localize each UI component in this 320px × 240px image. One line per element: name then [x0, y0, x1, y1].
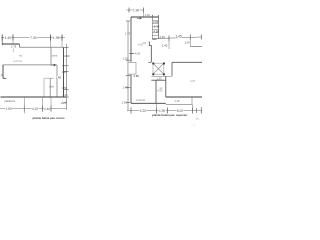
svg-text:1.40: 1.40 — [62, 70, 68, 74]
svg-text:pdf: pdf — [191, 123, 196, 127]
rp bottom dim label 1.90 — [159, 109, 166, 113]
svg-text:4.20: 4.20 — [138, 43, 144, 47]
rp left dim tick y21 — [126, 20, 130, 22]
interior wall x51 — [50, 47, 52, 66]
top dim tick 3 — [50, 35, 52, 41]
svg-text:1.20: 1.20 — [123, 56, 129, 60]
wall top y47 — [20, 46, 64, 48]
extension line x2 — [1, 41, 3, 46]
rp bottom tick x156 — [156, 108, 158, 114]
rp bottom dim label 6.00 — [176, 109, 183, 113]
wall step vertical x19 — [19, 44, 21, 48]
svg-text:1.50: 1.50 — [62, 86, 68, 90]
rp bottom wall right y97 — [166, 96, 202, 98]
bottom dim label 0.60 — [44, 107, 50, 111]
interior wall x57 lower — [56, 79, 58, 97]
svg-text:sala: sala — [49, 85, 54, 89]
stairs left rail — [151, 17, 153, 39]
svg-text:1.40: 1.40 — [175, 99, 181, 103]
bottom dim label 4.10 — [32, 107, 39, 111]
stair tread 3 — [152, 26, 158, 28]
svg-text:4.70: 4.70 — [190, 79, 196, 83]
svg-text:1.20: 1.20 — [157, 76, 163, 80]
interior wall x50 lower — [49, 78, 51, 97]
rp dim label 3.45 — [175, 34, 182, 38]
svg-text:1.40: 1.40 — [56, 75, 62, 79]
right dim tick y97 — [64, 96, 69, 98]
svg-text:1.40: 1.40 — [62, 93, 68, 97]
door leaf x13 — [13, 49, 15, 53]
dim label 1.40 — [5, 36, 12, 40]
interior wall y65 — [3, 64, 57, 66]
svg-text:4.20: 4.20 — [140, 109, 146, 113]
rp left dim tick y87 — [126, 86, 130, 88]
svg-text:planta bx: planta bx — [5, 99, 16, 103]
rp left dim tick y53 — [129, 52, 134, 54]
svg-text:4.95: 4.95 — [154, 30, 160, 34]
svg-text:4.95: 4.95 — [160, 35, 166, 39]
svg-text:2.60: 2.60 — [153, 20, 159, 24]
left wall x3 — [2, 65, 4, 79]
svg-text:4.20: 4.20 — [135, 52, 141, 56]
stairs bottom tick — [152, 38, 156, 40]
left wall upper tick — [1, 74, 4, 76]
right dim tick y47 — [64, 46, 69, 48]
svg-text:esc: esc — [196, 119, 200, 121]
extension line x50 — [50, 41, 52, 48]
rp door box on left wall — [128, 62, 136, 74]
svg-text:--: -- — [56, 83, 58, 86]
rp left dim tick y75 — [126, 74, 130, 76]
top dimension line — [1, 37, 65, 39]
interior wall x57 upper — [56, 65, 58, 76]
bottom dim tick x51 — [50, 106, 52, 112]
rp horizontal dim y38 — [152, 37, 201, 39]
svg-text:1.95: 1.95 — [53, 36, 60, 40]
right dim tick y65 — [62, 65, 69, 67]
rp bottom wall left y103 — [131, 102, 166, 104]
corridor wall y80 — [151, 79, 166, 81]
rp top dim line — [127, 9, 144, 11]
rp dim end tick — [200, 35, 202, 40]
svg-text:area: area — [52, 53, 58, 57]
stairs right rail — [158, 15, 160, 39]
svg-text:1.75: 1.75 — [11, 44, 17, 48]
bottom ext x66 — [65, 92, 67, 110]
left wall bottom tick — [3, 77, 6, 79]
right wall x63 — [63, 47, 65, 97]
rp left dim line x128 — [127, 21, 129, 111]
svg-text:1.75: 1.75 — [125, 31, 131, 35]
dim label 7.30 — [30, 36, 38, 40]
svg-text:3.45: 3.45 — [175, 35, 181, 39]
svg-text:1.90: 1.90 — [133, 8, 139, 12]
rp door arrow — [137, 18, 142, 20]
bottom ext x51 — [50, 97, 52, 112]
right dim line x66 — [65, 44, 67, 110]
extension line x13 — [12, 41, 14, 45]
rp bottom tick x196 — [196, 108, 198, 113]
svg-text:1.05: 1.05 — [184, 41, 190, 45]
svg-text:1.35: 1.35 — [154, 25, 160, 29]
svg-text:1.90: 1.90 — [159, 109, 165, 113]
svg-text:wc: wc — [19, 54, 23, 57]
rp bottom tick x167 — [167, 108, 169, 114]
svg-text:1.40: 1.40 — [162, 44, 168, 48]
top dim tick 2 — [12, 35, 14, 41]
rp ext x143 — [143, 13, 145, 17]
stair tread 4 — [152, 29, 158, 31]
corridor wall y76 — [151, 75, 172, 77]
rp top dim label 1.90 — [133, 8, 140, 12]
right dim tick y71 — [64, 71, 69, 73]
svg-text:4.10: 4.10 — [32, 107, 38, 111]
rp wing top wall y62 — [172, 61, 202, 63]
rp bottom tick x192 — [192, 108, 194, 114]
rp bottom ext x156 — [156, 103, 158, 110]
rp upper-right wall y46 — [190, 46, 202, 48]
bottom ext x24 — [23, 97, 25, 114]
rp top dim tick right — [143, 8, 145, 13]
rp left dim tick y60 — [126, 59, 130, 61]
top dim tick 4 — [61, 35, 63, 41]
svg-text:cozinha: cozinha — [13, 59, 22, 63]
svg-text:6.00: 6.00 — [177, 109, 183, 113]
rp interior wall x165 — [165, 76, 167, 97]
bottom ext x42 — [42, 97, 44, 112]
rp tick at stairfoot — [143, 42, 146, 44]
rp tick x152 — [151, 15, 153, 20]
stair tread 6 — [152, 35, 158, 37]
svg-text:cozinha: cozinha — [136, 98, 145, 102]
rp left dim tick y102 — [126, 101, 130, 103]
svg-text:1.40: 1.40 — [145, 13, 151, 17]
rp top wall y17 — [131, 16, 159, 18]
rp ext x190 down — [189, 37, 191, 47]
svg-text:planta baixa pav. superior: planta baixa pav. superior — [152, 113, 188, 117]
bottom wall y97 — [1, 96, 67, 98]
svg-text:1.40: 1.40 — [123, 86, 129, 90]
extension line x62 — [61, 41, 63, 48]
svg-text:planta baixa pav. terreo: planta baixa pav. terreo — [33, 116, 65, 120]
hatch box — [152, 63, 165, 76]
interior wall x44 — [43, 78, 45, 97]
wall tick left of hatch — [148, 61, 151, 63]
arrow at wall y65 — [52, 64, 56, 66]
svg-text:0.80: 0.80 — [134, 74, 140, 78]
svg-text:1.90: 1.90 — [5, 107, 11, 111]
rp bottom tick end — [200, 108, 202, 114]
rp porch box — [166, 97, 192, 104]
bottom dim tick x24 — [23, 106, 25, 112]
stair tread 2 — [152, 23, 158, 25]
stair tread 5 — [152, 32, 158, 34]
svg-text:1.00: 1.00 — [122, 101, 128, 105]
svg-text:7.30: 7.30 — [30, 36, 37, 40]
rp left wall x131 — [130, 17, 132, 103]
interior wall y78 — [44, 77, 54, 79]
bottom dim line — [0, 108, 66, 110]
dim label 1.95 — [53, 36, 60, 40]
wall top-left y44 — [2, 43, 20, 45]
svg-text:4.90: 4.90 — [64, 54, 70, 58]
svg-text:1.40: 1.40 — [5, 36, 12, 40]
rp ext x169 down — [168, 39, 170, 50]
svg-text:0.60: 0.60 — [44, 107, 50, 111]
stair tread 1 — [152, 20, 158, 22]
rp dim tick x169 — [168, 36, 170, 42]
rp bottom dim label 4.20 — [139, 109, 146, 113]
bottom dim label 1.90 — [5, 107, 12, 111]
rp bottom ext x192 — [192, 104, 194, 110]
rp wing corner x172 — [171, 62, 173, 76]
bottom dim tick x42 — [42, 106, 44, 112]
top dim tick left — [1, 35, 3, 41]
rp top dim tick left — [128, 8, 130, 13]
svg-text:1.40: 1.40 — [61, 101, 67, 105]
rp bottom tick x131 — [130, 108, 132, 114]
rp interior wall x151 — [149, 42, 151, 63]
rp dim tick x190 — [189, 35, 191, 41]
rp interior wall x156 — [155, 80, 157, 103]
rp bottom dim line — [127, 110, 201, 112]
right dim tick y89 — [64, 89, 69, 91]
svg-text:0.60: 0.60 — [158, 88, 164, 92]
